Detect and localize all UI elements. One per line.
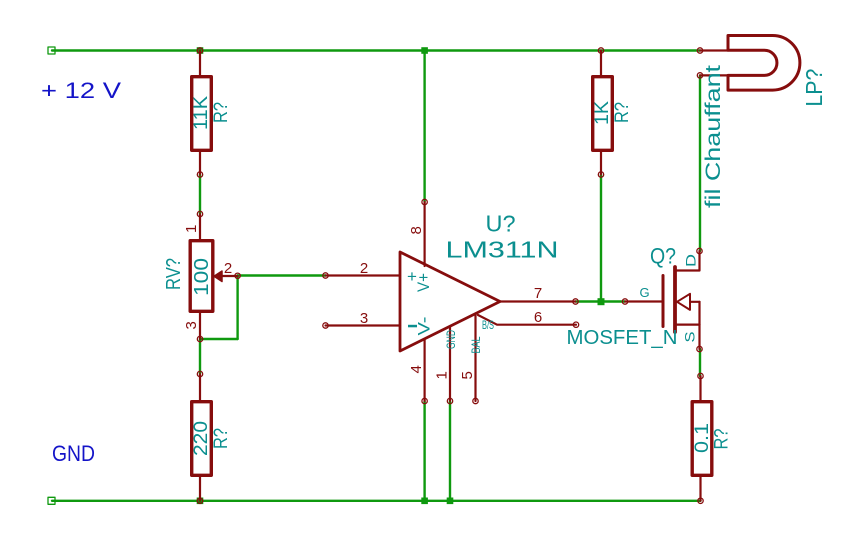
lamp pin 2 (697, 73, 702, 78)
potentiometer RV1 100 (190, 211, 240, 341)
lamp LP1 (697, 36, 800, 91)
svg-text:0.1: 0.1 (692, 423, 713, 453)
svg-text:V-: V- (415, 317, 434, 336)
svg-text:GND: GND (444, 330, 458, 349)
junction: top rail / pin8 wire (421, 47, 428, 54)
svg-text:V+: V+ (414, 273, 433, 292)
svg-text:3: 3 (360, 310, 368, 327)
opamp pin 8 (422, 199, 427, 204)
svg-text:GND: GND (52, 441, 95, 466)
wire: RV1 pin3 to R3 (199, 339, 201, 374)
svg-text:LM311N: LM311N (446, 237, 559, 263)
svg-text:R?: R? (211, 102, 232, 123)
junction: bottom rail / pin1 wire (447, 498, 454, 505)
mosfet source pin (675, 324, 700, 326)
wire: R2 bottom to output node (600, 175, 602, 302)
svg-text:LP?: LP? (801, 69, 827, 107)
wire: opamp pin7 to mosfet gate (576, 300, 626, 302)
wire: wiper down (236, 276, 238, 340)
mosfet bulk arrow (677, 301, 700, 303)
resistor R1 11K (192, 48, 212, 177)
svg-text:2: 2 (360, 260, 368, 277)
junction: output node (598, 298, 605, 305)
mosfet channel bar (673, 267, 677, 332)
opamp pin 4 (424, 339, 426, 401)
opamp pin 3 (323, 323, 328, 328)
wire: RV1 wiper to opamp pin2 (238, 274, 326, 276)
pin name minus (408, 325, 417, 328)
svg-text:R?: R? (211, 428, 232, 449)
svg-text:6: 6 (534, 309, 542, 326)
svg-text:fil Chauffant: fil Chauffant (702, 65, 725, 208)
transistor Q1 MOSFET_N (622, 248, 702, 351)
svg-text:7: 7 (534, 285, 542, 302)
svg-text:5: 5 (459, 371, 476, 379)
svg-text:MOSFET_N: MOSFET_N (567, 327, 678, 349)
svg-text:Q?: Q? (650, 244, 676, 269)
svg-text:1K: 1K (592, 101, 613, 125)
svg-text:1: 1 (434, 371, 451, 379)
opamp pin 7 (500, 300, 576, 302)
resistor R4 0.1 (692, 373, 712, 503)
svg-text:3: 3 (183, 321, 200, 329)
opamp pin 6 (478, 315, 576, 325)
junction: bottom rail / R3 (197, 498, 204, 505)
svg-text:4: 4 (408, 365, 425, 373)
junction: top rail / R1 (197, 47, 204, 54)
svg-text:D: D (683, 254, 699, 267)
opamp pin 5 (474, 314, 476, 401)
opamp pin 2 (323, 273, 328, 278)
resistor R3 220 (192, 371, 212, 503)
op-amp U1 LM311N (323, 199, 579, 403)
wire: wiper to pin3 node (200, 338, 238, 340)
wire: +12V top rail (52, 49, 700, 51)
svg-text:R?: R? (612, 102, 633, 123)
svg-text:1: 1 (183, 225, 200, 233)
lamp pin 1 (697, 48, 702, 53)
mosfet gate pin (622, 299, 627, 304)
opamp pin 1 (449, 326, 451, 401)
unconnected end square (bottom-left) (48, 497, 55, 504)
svg-text:B/S: B/S (482, 318, 494, 332)
svg-text:8: 8 (408, 226, 425, 234)
wire: GND bottom rail (52, 500, 701, 502)
svg-text:BAL: BAL (469, 336, 483, 353)
wire: opamp pin1 to bottom rail (449, 401, 451, 501)
wire: lamp pin2 to mosfet drain (699, 75, 701, 251)
svg-text:+ 12 V: + 12 V (41, 78, 121, 103)
lamp body (728, 36, 800, 91)
svg-text:100: 100 (191, 258, 213, 296)
junction: bottom rail / pin4 wire (421, 498, 428, 505)
mosfet gate bar (662, 276, 665, 327)
svg-text:G: G (639, 285, 649, 300)
svg-text:11K: 11K (191, 96, 212, 130)
wire: mosfet source to R4 (699, 349, 701, 376)
wire: R1 bottom to RV1 pin1 (199, 175, 201, 215)
svg-text:S: S (682, 332, 698, 343)
svg-text:2: 2 (224, 260, 232, 277)
wire: opamp pin4 to bottom rail (423, 401, 425, 501)
svg-text:U?: U? (486, 211, 516, 237)
svg-text:RV?: RV? (163, 258, 185, 290)
svg-text:R?: R? (712, 429, 733, 450)
mosfet drain pin (675, 251, 700, 271)
svg-text:220: 220 (191, 421, 212, 456)
unconnected end square (top-left) (48, 47, 55, 54)
resistor R2 1K (593, 48, 613, 177)
wire: top rail to opamp pin8 (423, 51, 425, 203)
